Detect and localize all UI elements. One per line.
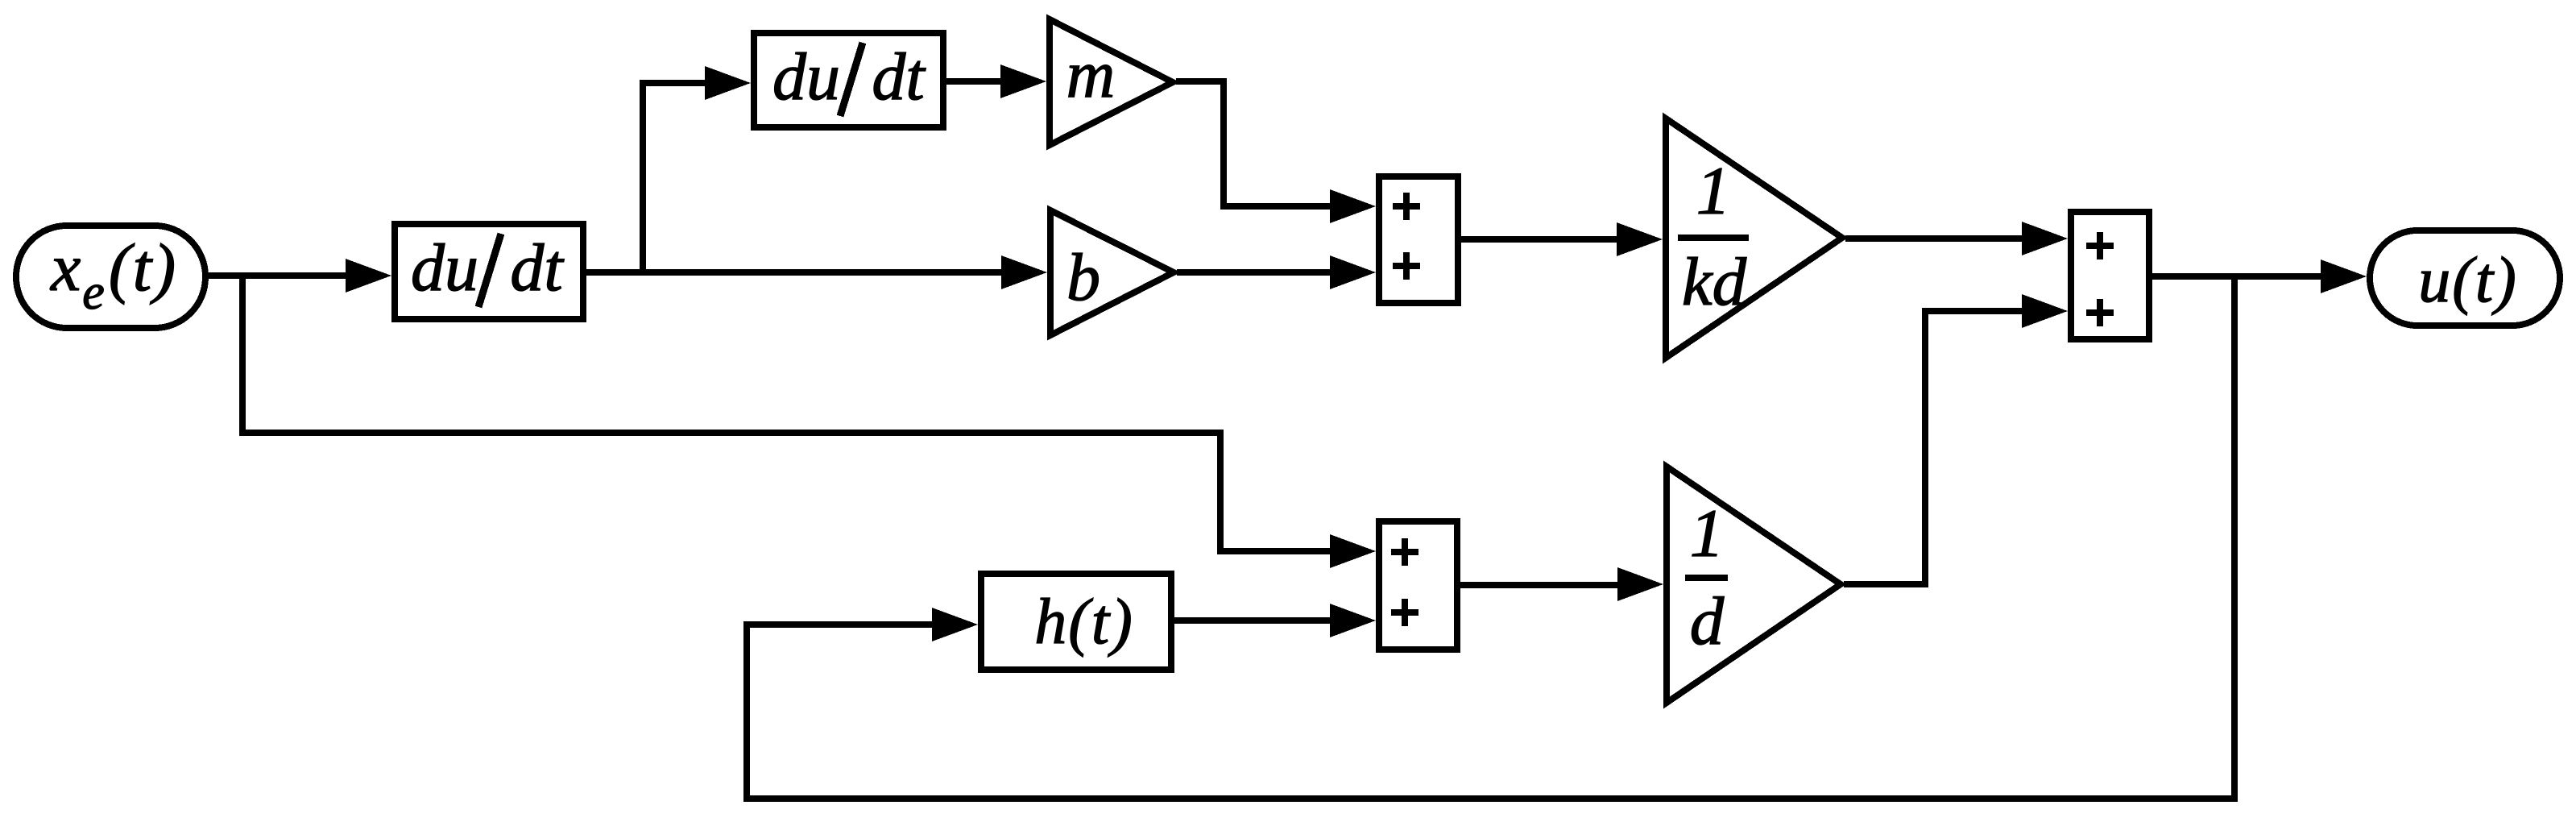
arrowhead into gain 1/kd <box>1617 222 1663 256</box>
wire h(t) output to lower sum bottom input <box>1174 617 1339 624</box>
svg-text:b: b <box>1066 240 1100 315</box>
wire gain b output to upper sum bottom input <box>1177 269 1339 276</box>
arrowhead into du/dt block <box>346 259 391 293</box>
svg-text:1: 1 <box>1696 153 1731 229</box>
svg-text:m: m <box>1066 37 1116 112</box>
wire branch from x_e(t) down and right to lower sum <box>242 276 1339 551</box>
wire from x_e(t) to du/dt block <box>209 272 354 279</box>
fraction bar of 1/kd <box>1678 235 1749 241</box>
arrowhead into gain m <box>1000 64 1046 98</box>
arrowhead into upper sum bottom input <box>1330 255 1376 289</box>
svg-text:1: 1 <box>1690 496 1725 571</box>
svg-text:dt: dt <box>872 39 926 114</box>
arrowhead into u(t) <box>2321 259 2367 293</box>
svg-text:d: d <box>1690 583 1725 659</box>
lower sum block <box>1379 521 1457 650</box>
wire upper sum output to gain 1/kd <box>1461 236 1626 243</box>
plus sign upper sum top <box>1393 193 1420 220</box>
arrowhead into h(t) <box>932 608 978 641</box>
wire lower sum output to gain 1/d <box>1460 582 1626 588</box>
arrowhead into lower sum bottom input <box>1330 604 1376 637</box>
derivative block du/dt (upper) <box>754 33 943 127</box>
wire gain 1/d output up to right sum bottom input <box>1844 311 2031 584</box>
arrowhead into lower sum top input <box>1330 534 1376 568</box>
plus sign lower sum top <box>1391 538 1418 566</box>
upper sum block <box>1379 176 1458 303</box>
plus sign upper sum bottom <box>1393 252 1420 280</box>
svg-text:u(t): u(t) <box>2418 245 2518 316</box>
plus sign lower sum bottom <box>1391 599 1418 626</box>
wire du/dt output to gain b <box>586 269 1010 276</box>
svg-text:kd: kd <box>1682 244 1747 320</box>
gain m triangle <box>1050 19 1173 145</box>
input port x_e(t) stadium <box>16 226 205 328</box>
block h(t) <box>981 574 1171 670</box>
arrowhead into right sum bottom input <box>2022 294 2068 328</box>
wire branch up from du/dt output to upper du/dt block <box>643 83 709 272</box>
arrowhead into gain 1/d <box>1617 567 1663 601</box>
wire right sum output to u(t) <box>2152 273 2330 280</box>
gain 1/d triangle <box>1667 467 1841 703</box>
derivative block du/dt (main) <box>395 224 583 319</box>
svg-text:du: du <box>772 39 840 114</box>
wire feedback from output junction down, left and up to h(t) <box>747 276 2234 799</box>
plus sign right sum top <box>2086 232 2114 259</box>
wire gain 1/kd output to right sum top input <box>1845 235 2031 242</box>
output port u(t) stadium <box>2370 230 2560 326</box>
arrowhead into upper sum top input <box>1330 189 1376 223</box>
wire upper du/dt output to gain m <box>946 78 1009 85</box>
arrowhead into right sum top input <box>2022 222 2068 255</box>
fraction bar of 1/d <box>1685 575 1728 581</box>
svg-text:du: du <box>411 230 478 305</box>
arrowhead into upper du/dt block <box>705 66 751 100</box>
svg-text:dt: dt <box>510 230 565 305</box>
svg-text:h(t): h(t) <box>1034 587 1134 658</box>
plus sign right sum bottom <box>2086 299 2114 326</box>
gain b triangle <box>1050 210 1174 335</box>
wire gain m output to upper sum top input <box>1176 81 1339 206</box>
arrowhead into gain b <box>1001 255 1047 289</box>
gain 1/kd triangle <box>1666 118 1842 358</box>
right sum block <box>2071 212 2149 339</box>
